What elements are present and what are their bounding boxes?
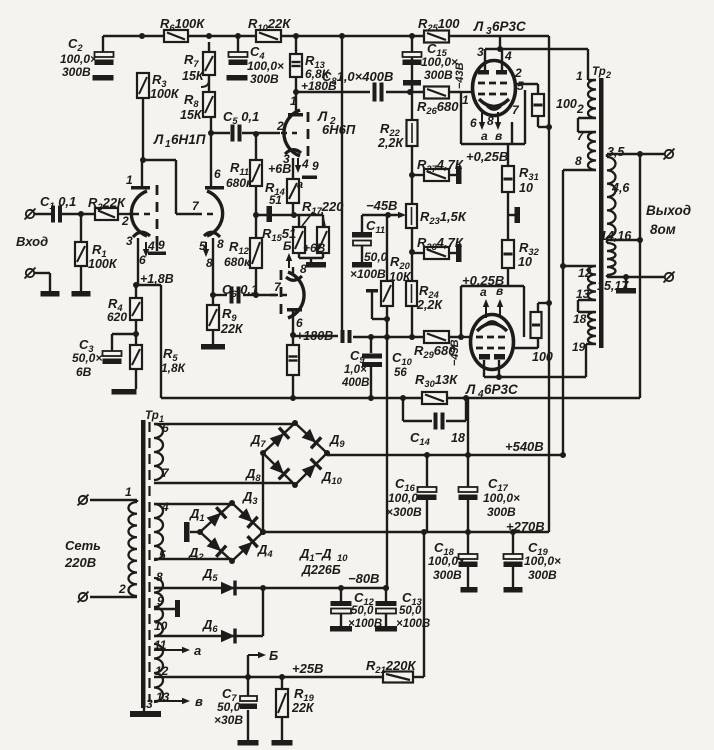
svg-text:3: 3: [146, 697, 153, 711]
svg-text:9: 9: [312, 159, 319, 173]
svg-text:5: 5: [159, 548, 166, 562]
svg-text:Вход: Вход: [16, 234, 48, 249]
svg-text:50,0: 50,0: [217, 700, 241, 714]
svg-text:4: 4: [301, 157, 309, 171]
svg-text:3: 3: [126, 234, 133, 248]
svg-text:8: 8: [487, 114, 494, 128]
svg-text:12: 12: [578, 266, 592, 280]
svg-text:С1 0,1: С1 0,1: [40, 194, 76, 211]
svg-text:680к: 680к: [224, 255, 251, 269]
svg-text:8: 8: [217, 237, 224, 251]
svg-text:50,0: 50,0: [399, 605, 422, 617]
svg-text:С5 0,1: С5 0,1: [223, 109, 259, 126]
svg-text:R25100: R25100: [418, 16, 460, 33]
svg-text:6Н6П: 6Н6П: [322, 122, 356, 137]
svg-text:R274,7К: R274,7К: [417, 157, 464, 174]
svg-text:11: 11: [154, 638, 167, 652]
svg-text:в: в: [496, 284, 503, 298]
svg-text:Л: Л: [473, 19, 484, 34]
svg-text:10К: 10К: [389, 270, 412, 284]
svg-text:1,0×: 1,0×: [344, 364, 367, 376]
svg-text:+6В: +6В: [303, 241, 326, 255]
svg-text:1: 1: [125, 485, 132, 499]
svg-text:22К: 22К: [291, 701, 315, 715]
svg-text:4: 4: [161, 500, 169, 514]
svg-text:−80В: −80В: [348, 571, 379, 586]
svg-text:4: 4: [504, 49, 512, 63]
svg-text:R26680: R26680: [417, 99, 459, 116]
svg-text:14,16: 14,16: [600, 229, 632, 243]
svg-text:Д1−Д: Д1−Д: [299, 546, 332, 563]
svg-text:6Р3С: 6Р3С: [492, 19, 526, 34]
svg-text:4: 4: [477, 389, 484, 400]
svg-text:Б: Б: [269, 648, 278, 663]
svg-text:2: 2: [118, 582, 126, 596]
svg-text:5: 5: [199, 239, 206, 253]
svg-text:100,0×: 100,0×: [421, 55, 458, 69]
svg-text:56: 56: [394, 367, 407, 379]
svg-text:10: 10: [519, 181, 533, 195]
svg-text:15К: 15К: [182, 69, 205, 83]
svg-text:1: 1: [126, 173, 133, 187]
svg-text:2: 2: [605, 70, 611, 80]
svg-text:1: 1: [290, 94, 297, 108]
svg-text:а: а: [481, 129, 488, 143]
svg-text:+25В: +25В: [292, 661, 323, 676]
svg-text:15,17: 15,17: [597, 279, 629, 293]
svg-text:6Р3С: 6Р3С: [484, 382, 518, 397]
svg-text:в: в: [495, 129, 502, 143]
svg-text:100,0×: 100,0×: [524, 554, 561, 568]
svg-text:13: 13: [156, 690, 170, 704]
svg-text:6: 6: [296, 316, 303, 330]
svg-text:6: 6: [214, 167, 221, 181]
svg-text:+1,8В: +1,8В: [140, 272, 174, 286]
svg-text:Д226Б: Д226Б: [301, 563, 341, 577]
svg-text:100К: 100К: [150, 87, 180, 101]
svg-text:100: 100: [556, 97, 577, 111]
svg-text:100,0×: 100,0×: [428, 554, 465, 568]
svg-text:300В: 300В: [250, 72, 279, 86]
svg-text:680к: 680к: [226, 176, 253, 190]
svg-text:8: 8: [575, 154, 582, 168]
svg-text:×100В: ×100В: [348, 618, 382, 630]
svg-text:6: 6: [470, 116, 477, 130]
svg-text:18: 18: [451, 431, 465, 445]
svg-text:−43В: −43В: [454, 62, 466, 89]
svg-text:12: 12: [155, 664, 169, 678]
svg-text:×30В: ×30В: [214, 713, 243, 727]
svg-text:51: 51: [269, 195, 282, 207]
svg-text:100: 100: [532, 350, 553, 364]
svg-text:620: 620: [107, 310, 127, 324]
svg-text:Тр: Тр: [145, 410, 159, 422]
svg-text:50,0×: 50,0×: [72, 351, 102, 365]
svg-text:−45В: −45В: [366, 198, 397, 213]
svg-text:Выход: Выход: [646, 203, 691, 218]
svg-text:С6 0,1: С6 0,1: [222, 282, 258, 299]
svg-text:1,8К: 1,8К: [161, 361, 187, 375]
svg-text:100К: 100К: [88, 257, 118, 271]
svg-text:50,0: 50,0: [351, 605, 374, 617]
svg-text:22К: 22К: [220, 322, 244, 336]
svg-text:19: 19: [572, 340, 586, 354]
svg-text:+0,25В: +0,25В: [466, 149, 508, 164]
svg-text:2: 2: [576, 102, 584, 116]
svg-text:4: 4: [147, 239, 155, 253]
svg-text:2,2К: 2,2К: [377, 136, 404, 150]
svg-text:300В: 300В: [487, 505, 516, 519]
svg-text:10: 10: [154, 619, 168, 633]
svg-text:8ом: 8ом: [650, 222, 676, 237]
svg-text:8: 8: [156, 570, 163, 584]
svg-text:а: а: [194, 643, 201, 658]
svg-text:300В: 300В: [62, 65, 91, 79]
svg-text:+540В: +540В: [505, 439, 544, 454]
svg-text:3,5: 3,5: [607, 145, 625, 159]
svg-text:100,0×: 100,0×: [483, 491, 520, 505]
svg-text:Сеть: Сеть: [65, 538, 101, 553]
svg-text:×300В: ×300В: [386, 505, 422, 519]
svg-text:10: 10: [518, 255, 532, 269]
svg-text:2: 2: [276, 119, 284, 133]
svg-text:9: 9: [158, 238, 165, 252]
svg-text:100,0: 100,0: [388, 491, 418, 505]
svg-text:−43В: −43В: [449, 339, 461, 366]
svg-text:Л: Л: [465, 382, 476, 397]
svg-text:15К: 15К: [180, 108, 203, 122]
svg-text:+6В: +6В: [268, 162, 291, 176]
svg-text:18: 18: [573, 312, 587, 326]
svg-text:2: 2: [121, 214, 129, 228]
svg-text:9: 9: [157, 594, 164, 608]
svg-text:4,6: 4,6: [611, 181, 630, 195]
svg-text:8: 8: [300, 262, 307, 276]
svg-text:220В: 220В: [64, 555, 96, 570]
svg-text:100,0×: 100,0×: [247, 59, 284, 73]
svg-text:Л: Л: [153, 132, 164, 147]
svg-text:×100В: ×100В: [350, 267, 386, 281]
svg-text:R3013К: R3013К: [415, 372, 458, 389]
svg-text:Б: Б: [283, 239, 292, 253]
svg-text:R284,7К: R284,7К: [417, 235, 464, 252]
svg-text:R6100К: R6100К: [160, 16, 205, 33]
svg-text:2: 2: [514, 66, 522, 80]
svg-text:8: 8: [206, 256, 213, 270]
svg-text:R222К: R222К: [88, 195, 126, 212]
svg-text:R21220К: R21220К: [366, 658, 416, 675]
svg-text:6В: 6В: [76, 365, 92, 379]
svg-text:Тр: Тр: [592, 66, 606, 78]
svg-text:5: 5: [517, 79, 524, 93]
svg-text:а: а: [297, 179, 303, 191]
svg-text:×100В: ×100В: [396, 618, 430, 630]
svg-text:300В: 300В: [528, 568, 557, 582]
svg-text:в: в: [195, 694, 203, 709]
svg-text:400В: 400В: [341, 377, 370, 389]
svg-text:R231,5К: R231,5К: [420, 209, 467, 226]
svg-text:6Н1П: 6Н1П: [171, 132, 206, 147]
svg-text:50,0: 50,0: [364, 250, 388, 264]
svg-text:R17220: R17220: [302, 199, 344, 216]
svg-text:а: а: [480, 285, 487, 299]
svg-text:1: 1: [576, 69, 583, 83]
svg-text:100,0×: 100,0×: [60, 52, 97, 66]
svg-text:300В: 300В: [424, 68, 453, 82]
svg-text:1: 1: [462, 93, 469, 107]
svg-text:3: 3: [477, 45, 484, 59]
svg-text:6: 6: [162, 421, 169, 435]
svg-text:R1022К: R1022К: [248, 16, 291, 33]
svg-text:300В: 300В: [433, 568, 462, 582]
svg-text:13: 13: [576, 287, 590, 301]
svg-text:+270В: +270В: [506, 519, 545, 534]
svg-text:6: 6: [139, 253, 146, 267]
svg-text:2,2К: 2,2К: [416, 298, 443, 312]
svg-text:+180В: +180В: [296, 329, 333, 343]
